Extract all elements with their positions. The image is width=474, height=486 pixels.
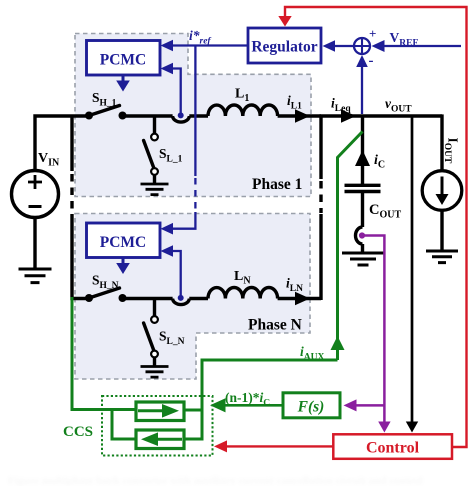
ground SL_N bbox=[141, 367, 169, 378]
arrow purple into F(s) bbox=[344, 399, 357, 411]
ground SL_1 bbox=[141, 184, 169, 195]
arrow red into regulator bbox=[278, 16, 291, 27]
arrow green into CCS bbox=[210, 398, 226, 412]
wire purple cap sense bbox=[364, 236, 384, 423]
svg-text:PCMC: PCMC bbox=[100, 234, 147, 251]
wire green command to CCS bbox=[224, 404, 283, 407]
wire VIN bottom bbox=[33, 218, 36, 270]
wire sensor to ground bbox=[361, 244, 364, 253]
wire vOUT node down to cap bbox=[361, 116, 364, 184]
wire IOUT to ground bbox=[440, 210, 443, 251]
ground IOUT bbox=[426, 251, 458, 263]
wire drop to SL bbox=[153, 299, 156, 317]
switch SL_N bbox=[144, 316, 158, 357]
svg-text:F(s): F(s) bbox=[297, 399, 325, 416]
wire purple branch to F(s) bbox=[356, 404, 384, 407]
CCS lower source box bbox=[136, 430, 184, 449]
arrow iL1 bbox=[295, 109, 310, 122]
wire upper source to right node bbox=[184, 409, 202, 412]
wire SL to ground bbox=[153, 175, 156, 184]
arrow PCMC gate drive 1 bbox=[116, 75, 130, 92]
phase 1 dashed region bbox=[75, 34, 311, 197]
wire inductor to rail bbox=[278, 114, 321, 117]
voltage source VIN bbox=[12, 171, 59, 218]
PCMC box phase N bbox=[87, 223, 161, 258]
wire input rail dashed segment bbox=[70, 174, 73, 213]
inductor LN bbox=[208, 288, 278, 299]
wire red control to CCS bbox=[226, 445, 333, 447]
wire green horizontal run bbox=[202, 360, 338, 441]
wire green from input rail bbox=[72, 297, 136, 410]
switch SL_1 bbox=[144, 134, 158, 175]
summing junction bbox=[354, 38, 370, 54]
wire switch to sensor bbox=[123, 297, 173, 300]
svg-text:Phase 1: Phase 1 bbox=[252, 176, 302, 193]
ground COUT bbox=[342, 253, 384, 265]
wire output rail lower solid bbox=[319, 214, 322, 300]
current source IOUT bbox=[422, 171, 462, 211]
svg-text:Control: Control bbox=[366, 440, 420, 457]
wire current sense to PCMC N bbox=[172, 251, 181, 297]
wire input rail lower solid bbox=[72, 214, 89, 299]
svg-text:CCS: CCS bbox=[63, 424, 93, 440]
inductor L1 bbox=[208, 105, 278, 116]
wire iref from regulator bbox=[172, 44, 248, 46]
wire drop to SL bbox=[153, 116, 156, 134]
control box bbox=[333, 434, 452, 459]
svg-text:Regulator: Regulator bbox=[251, 39, 317, 56]
wire sensor to inductor bbox=[189, 297, 208, 300]
PCMC box phase 1 bbox=[87, 41, 161, 76]
arrow iAUX up bbox=[331, 336, 345, 350]
wire vOUT to summing bbox=[361, 66, 363, 114]
wire sensor hop bbox=[173, 116, 190, 122]
arrow purple into Control bbox=[378, 422, 390, 433]
arrow iC bbox=[355, 150, 370, 166]
arrow current sense into PCMC N bbox=[161, 245, 174, 257]
switch SH_1 bbox=[85, 106, 127, 120]
F(s) box bbox=[283, 393, 340, 418]
wire cap sensor hop bbox=[356, 227, 363, 244]
CCS dashed box bbox=[102, 396, 213, 456]
arrow iref into PCMC N bbox=[161, 223, 174, 235]
wire iref vertical dashed bbox=[194, 178, 196, 212]
arrow into regulator bbox=[323, 40, 336, 52]
wire cap to sensor bbox=[361, 192, 364, 228]
wire lower source to right node bbox=[184, 438, 202, 441]
arrow VREF into summing bbox=[372, 40, 385, 52]
arrow iLN bbox=[295, 292, 310, 305]
wire inductor to rail bbox=[278, 297, 321, 300]
wire VIN top to rail bbox=[35, 116, 89, 171]
arrow current sense into PCMC 1 bbox=[161, 63, 174, 75]
node cap current sense dot bbox=[359, 232, 365, 238]
wire iref vertical to PCMC N bbox=[172, 212, 195, 229]
wire SL to ground bbox=[153, 358, 156, 367]
wire red feedback top and right rail bbox=[285, 7, 467, 447]
wire output rail upper solid bbox=[319, 116, 322, 179]
arrow into Control (black) bbox=[406, 422, 418, 433]
wire main output line bbox=[320, 114, 443, 117]
svg-text:PCMC: PCMC bbox=[100, 52, 147, 69]
svg-text:+: + bbox=[369, 26, 376, 41]
arrow iref into PCMC1 bbox=[161, 40, 174, 52]
svg-text:Phase N: Phase N bbox=[248, 317, 302, 334]
wire summing to regulator bbox=[334, 45, 354, 47]
ground VIN bbox=[19, 269, 52, 283]
wire switch to sensor bbox=[123, 114, 173, 117]
wire to IOUT bbox=[440, 114, 443, 171]
wire iref vertical solid bbox=[194, 46, 196, 177]
wire vOUT sense to Control bbox=[411, 117, 414, 423]
wire sensor hop bbox=[173, 299, 190, 305]
wire current sense to PCMC 1 bbox=[172, 69, 181, 115]
svg-text:-: - bbox=[369, 53, 374, 69]
capacitor COUT bbox=[345, 185, 381, 191]
phase N dashed region bbox=[75, 214, 310, 380]
arrow iLeq bbox=[341, 109, 356, 122]
CCS upper source box bbox=[136, 402, 184, 421]
wire output rail dashed bbox=[319, 181, 322, 213]
regulator box bbox=[248, 28, 321, 63]
wire green aux vertical and to vOUT bbox=[338, 132, 363, 361]
wire sensor to inductor bbox=[189, 114, 208, 117]
arrow red into CCS bbox=[214, 440, 227, 452]
svg-text:Figure multiphase buck convert: Figure multiphase buck converter with au… bbox=[8, 475, 423, 486]
wire VREF bbox=[383, 45, 461, 47]
switch SH_N bbox=[85, 288, 127, 302]
wire green branch to lower source bbox=[112, 410, 136, 440]
node current sense dot bbox=[178, 295, 184, 301]
wire input rail upper solid bbox=[70, 115, 73, 172]
caption blur bbox=[8, 475, 423, 486]
arrow vOUT into summing bbox=[356, 55, 368, 67]
node current sense dot bbox=[178, 112, 184, 118]
arrow PCMC gate drive N bbox=[116, 258, 130, 275]
